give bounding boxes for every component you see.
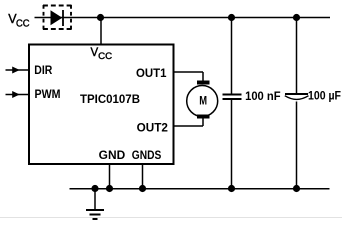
svg-text:100 µF: 100 µF [308, 91, 341, 103]
svg-text:PWM: PWM [35, 89, 61, 101]
svg-text:CC: CC [98, 51, 113, 61]
svg-text:100 nF: 100 nF [245, 91, 281, 103]
svg-text:M: M [199, 94, 207, 108]
svg-text:TPIC0107B: TPIC0107B [80, 94, 140, 106]
svg-text:GND: GND [99, 150, 126, 162]
svg-text:OUT1: OUT1 [136, 68, 167, 80]
svg-text:GNDS: GNDS [132, 150, 162, 162]
svg-text:DIR: DIR [34, 65, 53, 77]
svg-text:CC: CC [16, 19, 30, 30]
svg-text:OUT2: OUT2 [137, 123, 168, 135]
